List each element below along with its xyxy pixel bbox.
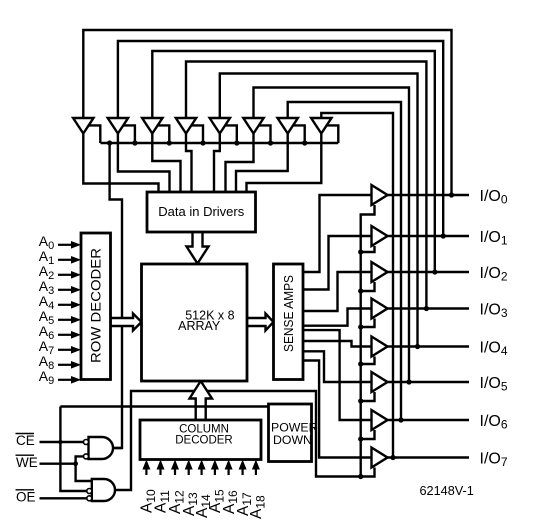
svg-text:DECODER: DECODER [175, 434, 233, 446]
svg-text:DOWN: DOWN [273, 433, 312, 447]
svg-text:ARRAY: ARRAY [178, 319, 221, 333]
svg-text:ROW DECODER: ROW DECODER [88, 248, 104, 363]
svg-text:62148V-1: 62148V-1 [420, 484, 474, 498]
svg-text:CE: CE [16, 433, 35, 448]
svg-text:OE: OE [16, 490, 36, 505]
svg-text:WE: WE [16, 455, 38, 470]
svg-text:SENSE AMPS: SENSE AMPS [281, 275, 296, 352]
svg-text:Data in Drivers: Data in Drivers [158, 204, 244, 219]
